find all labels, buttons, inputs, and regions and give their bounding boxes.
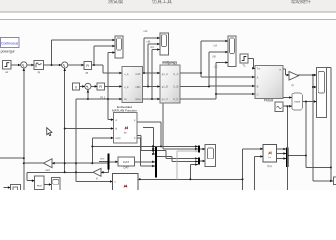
wire mux1 in short <box>99 160 108 162</box>
wire down to rpm <box>26 172 28 180</box>
wire to scope4 p2 <box>313 86 317 88</box>
wire sum2 to PI iq <box>68 64 84 66</box>
mod block <box>292 93 303 110</box>
scope2 <box>160 33 169 55</box>
wire theta down branch <box>75 99 77 182</box>
wire fcn outmid2 <box>137 135 141 137</box>
LPF block <box>118 157 135 170</box>
wire fcn in3 horizontal <box>92 137 113 139</box>
wire mux1 to LPF <box>109 161 118 163</box>
svg-text:C: C <box>257 92 259 96</box>
wire speed feedback vertical <box>23 68 25 190</box>
wire dq out1 <box>143 72 161 74</box>
wire step to sum1 <box>11 64 21 66</box>
wire gain half out <box>27 171 93 173</box>
svg-text:PI: PI <box>38 71 41 75</box>
wire dq out3 <box>143 98 161 100</box>
svg-text:Tm: Tm <box>257 67 261 71</box>
torque step block <box>240 54 248 68</box>
svg-text:w: w <box>115 119 117 122</box>
svg-text:uCt: uCt <box>150 45 154 49</box>
wire fcn out1 down <box>160 122 162 146</box>
wire mA to mux2 <box>141 150 155 152</box>
wire muxB in3 vertical <box>189 165 191 180</box>
wire mux2 out1 down <box>165 151 167 159</box>
svg-text:g1_A: g1_A <box>162 72 168 76</box>
wire muxB in3 <box>190 164 198 166</box>
wire mA up <box>143 38 145 73</box>
wire UA to scope3 <box>201 40 228 42</box>
wire uq branch up <box>93 46 95 65</box>
wire fcn out1 <box>137 121 161 123</box>
wire fcn2 out2 <box>276 153 286 155</box>
wire sum1 to PI <box>27 64 34 66</box>
svg-text:U_B: U_B <box>173 85 178 89</box>
wire torque to Tm <box>254 67 255 69</box>
wire mux2 out2 <box>157 155 172 157</box>
mux4b <box>198 158 200 165</box>
wire PI iq out <box>92 64 104 66</box>
wire UB vertical <box>208 52 210 87</box>
wire muxB to scope8 <box>200 160 205 162</box>
display1 <box>11 185 21 191</box>
svg-text:PI: PI <box>86 64 89 68</box>
wire UB out <box>180 86 209 88</box>
wire loop to muxA <box>92 145 198 147</box>
wire rpm to scope5 <box>44 184 52 186</box>
wire inverter meas down <box>162 104 164 149</box>
wire fcn in3 vertical <box>91 138 93 163</box>
scope5 <box>52 178 61 191</box>
wire to mux2 in5 <box>141 165 155 167</box>
svg-text:mAb: mAb <box>135 72 141 76</box>
svg-text:g1_B: g1_B <box>162 85 168 89</box>
wire UA out <box>180 72 201 74</box>
svg-text:0: 0 <box>75 85 77 89</box>
wire mB up <box>147 44 149 87</box>
wire mB to mux2 <box>154 153 155 155</box>
MATLAB Function block <box>114 113 138 144</box>
wire left entry <box>0 157 24 159</box>
wire display1 in <box>4 187 11 189</box>
wire mux1 bottom <box>108 170 110 173</box>
scope4 <box>317 68 327 118</box>
svg-text:u_d: u_d <box>124 85 129 89</box>
junction dots <box>51 64 53 66</box>
wire UB to scope3 <box>209 51 228 53</box>
svg-text:wm: wm <box>100 158 104 161</box>
wire mod out <box>302 101 316 103</box>
wire to muxA in2 <box>163 148 198 150</box>
wire PI id to dq port2 <box>105 85 123 87</box>
wire theta to scope1 <box>108 52 115 54</box>
svg-text:mCa: mCa <box>135 97 141 101</box>
svg-text:powergui: powergui <box>1 49 15 53</box>
wire fcn2 in1 vertical <box>242 149 244 190</box>
wire UC to scope3 <box>216 62 228 64</box>
svg-text:A: A <box>257 75 259 79</box>
wire iq feedback vertical <box>64 68 66 172</box>
wire UA to motor <box>201 76 255 78</box>
PI speed regulator <box>34 61 44 75</box>
wire fcn outmid <box>143 127 154 129</box>
svg-text:K: K <box>96 177 98 181</box>
wire muxA to scope8 <box>200 148 205 150</box>
wire mux2 out2 down <box>171 156 173 161</box>
wire scope4 top <box>327 66 331 68</box>
svg-text:U_A: U_A <box>173 72 178 76</box>
wire mC to scope2 <box>152 49 160 51</box>
arrowheads up-pointing <box>23 68 90 92</box>
wire fcn out2 down <box>140 138 142 166</box>
wire m to gain <box>286 74 290 76</box>
mouse cursor <box>47 128 52 136</box>
svg-text:PI: PI <box>99 85 102 89</box>
wire bend to dq port1 <box>102 65 104 73</box>
svg-text:uAt: uAt <box>144 29 148 33</box>
wire rad gain out <box>24 162 44 164</box>
wire id feedback arrow <box>87 90 89 100</box>
svg-text:rad: rad <box>45 168 49 172</box>
wire w to fcn in2 <box>65 128 114 130</box>
wire theta vertical long <box>286 106 288 190</box>
PI iq regulator <box>84 62 92 76</box>
wm fcn block <box>113 173 138 190</box>
wire motor to mod in1 <box>283 97 292 99</box>
svg-text:仿真工具: 仿真工具 <box>152 0 172 5</box>
scope1 <box>115 36 123 58</box>
gain wm <box>289 72 299 87</box>
wire fcn2 in2 <box>255 156 263 158</box>
gain half <box>93 168 101 180</box>
svg-text:帮助硬件: 帮助硬件 <box>291 0 311 5</box>
wire mid horizontal <box>306 166 331 168</box>
svg-text:DAT: DAT <box>123 160 129 164</box>
svg-text:TL: TL <box>242 64 246 68</box>
svg-text:UC: UC <box>214 65 218 69</box>
svg-text:UB: UB <box>212 55 216 59</box>
svg-text:DAT: DAT <box>124 166 130 170</box>
svg-text:UA: UA <box>214 44 218 48</box>
svg-text:g1_C: g1_C <box>162 97 168 101</box>
wire PI to sum2 <box>44 64 62 66</box>
wire sum3 to PI id <box>91 85 97 87</box>
svg-text:测试模: 测试模 <box>108 0 123 5</box>
wire dq out2 <box>143 86 161 88</box>
wire const to sum3 <box>80 85 85 87</box>
wire mA to scope2 <box>144 37 160 39</box>
wire LPF to mux2 <box>135 161 155 163</box>
svg-text:mBc: mBc <box>135 85 141 89</box>
sum1 <box>21 62 27 68</box>
wire mC up <box>151 50 153 100</box>
arrowheads left-pointing <box>52 162 104 174</box>
mux4a <box>198 145 200 152</box>
wire rad gain in <box>52 162 108 164</box>
svg-text:twd: twd <box>37 183 42 187</box>
PI id regulator <box>97 83 106 100</box>
demux1 <box>108 154 110 170</box>
wire UB to motor <box>209 85 255 87</box>
wire iqref to scope1 <box>52 39 116 41</box>
wire fcn2 in1 <box>243 148 264 150</box>
wire UC out <box>180 98 216 100</box>
svg-text:PI: PI <box>86 71 89 75</box>
inverter block <box>160 65 180 103</box>
gain rad2rpm <box>44 159 53 172</box>
svg-text:PMSM: PMSM <box>264 99 274 103</box>
wire to muxB in2 <box>172 161 198 163</box>
wire theta row to dq port3 <box>76 98 122 100</box>
scope3 <box>228 36 236 67</box>
toolbar strip <box>0 0 336 20</box>
wire mid down vertical <box>305 102 307 168</box>
wire UC vertical <box>215 63 217 100</box>
SVPWM dq block <box>122 67 143 103</box>
wire iqref branch up <box>51 40 53 65</box>
wire gray horizontal <box>177 150 198 152</box>
wire theta to fcn in1 <box>108 119 114 121</box>
wire right edge vertical <box>330 67 332 181</box>
wire m down <box>285 69 287 75</box>
wire fcn2 out3 <box>276 158 286 160</box>
wire into rpm <box>27 180 35 182</box>
svg-text:wr: wr <box>5 70 8 74</box>
svg-text:f(u): f(u) <box>267 164 271 168</box>
rpm block <box>35 176 45 190</box>
wire fcn out2 <box>137 137 141 139</box>
svg-text:mid(amp): mid(amp) <box>162 60 176 64</box>
wire long right vertical <box>312 75 314 181</box>
svg-text:m: m <box>279 69 281 72</box>
PMSM motor block <box>255 65 283 98</box>
wire fcn2 out1 <box>276 148 286 150</box>
constant id=0 <box>73 83 80 90</box>
wire bottom right horizontal <box>313 180 333 182</box>
wire m out <box>283 68 286 70</box>
wire UC to motor <box>216 93 255 95</box>
wire fcn2 in2 vertical <box>254 157 256 191</box>
wire to muxB in1 <box>166 158 198 160</box>
svg-text:u(2)t: u(2)t <box>115 136 121 140</box>
svg-text:MATLAB Function: MATLAB Function <box>112 109 137 113</box>
wire wmfcn out <box>138 178 243 180</box>
wire torque out <box>248 58 254 60</box>
svg-text:uBt: uBt <box>147 40 151 44</box>
wire torque down <box>253 59 255 69</box>
wire theta vertical <box>107 53 109 120</box>
mux3 <box>286 148 289 168</box>
wire fcn outmid down <box>153 128 155 154</box>
wire into wm fcn <box>76 181 113 183</box>
svg-text:U_C: U_C <box>173 97 178 101</box>
canvas background <box>0 0 336 190</box>
rate transition block <box>275 102 283 112</box>
scope8 <box>205 145 215 167</box>
arrowheads right-pointing <box>18 39 122 75</box>
wire to gain half <box>101 171 109 173</box>
wire mux3 out <box>289 155 306 157</box>
wire mux2 out1 <box>157 150 166 152</box>
wire gain out <box>297 74 316 76</box>
svg-text:mod: mod <box>294 100 300 104</box>
wire UA vertical <box>200 41 202 77</box>
wire gray vertical <box>176 151 178 179</box>
powergui block <box>1 38 19 48</box>
sum3 <box>85 83 91 89</box>
wire mB to scope2 <box>148 43 160 45</box>
sum2 <box>62 62 68 68</box>
svg-text:wt: wt <box>124 97 127 101</box>
theta fcn block <box>263 145 276 168</box>
mux2 <box>155 146 157 178</box>
wire outmid2 down <box>140 136 142 151</box>
step Wref <box>3 60 11 74</box>
MATLAB Function label <box>112 105 137 112</box>
wire uq to scope1 <box>94 45 115 47</box>
svg-text:Continuous: Continuous <box>1 41 18 45</box>
svg-text:B: B <box>257 84 259 88</box>
svg-text:rp: rp <box>292 83 295 87</box>
offscreen block sliver <box>334 177 336 185</box>
wire PP to mod in2 <box>283 105 292 107</box>
svg-text:u_q: u_q <box>124 73 129 76</box>
